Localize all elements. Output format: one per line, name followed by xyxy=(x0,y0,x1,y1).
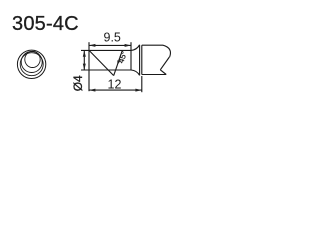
svg-text:9.5: 9.5 xyxy=(104,31,121,45)
dia4 bottom arrow xyxy=(83,64,86,70)
side view: cylinder bottom edge xyxy=(81,69,131,71)
front view heel circle xyxy=(21,52,42,73)
body bottom edge xyxy=(142,74,166,76)
dim 12 right arrow xyxy=(135,89,141,92)
side view: cylinder top edge xyxy=(81,49,131,51)
body top edge xyxy=(142,44,163,46)
side view: junction line at flare xyxy=(130,42,132,70)
side view: extension line left vertical xyxy=(88,42,90,91)
front view bevel face ellipse xyxy=(25,51,40,67)
dim dia4 line xyxy=(83,50,85,70)
dim 9.5 line xyxy=(89,44,131,46)
break line lower xyxy=(160,70,166,75)
dia4 top arrow xyxy=(83,50,86,56)
front view outer circle xyxy=(17,50,45,78)
svg-text:12: 12 xyxy=(108,78,122,92)
flange vertical 2 xyxy=(141,45,143,74)
dim 9.5 left arrow xyxy=(89,44,95,47)
flange vertical 1 xyxy=(139,45,141,76)
break arc xyxy=(163,45,170,57)
45 leader arrowhead xyxy=(117,60,120,65)
flare bottom curve xyxy=(131,70,140,75)
bevel edge 45deg xyxy=(89,51,113,76)
dim 12 left arrow xyxy=(89,89,95,92)
flare top curve xyxy=(131,45,140,51)
dim 9.5 right arrow xyxy=(125,44,131,47)
front view cone base circle xyxy=(20,53,43,76)
title 305-4C xyxy=(12,13,79,36)
svg-text:45°: 45° xyxy=(116,50,129,64)
dim 12 right extension xyxy=(141,76,143,92)
dim 12 line xyxy=(89,89,142,91)
svg-text:Ø4: Ø4 xyxy=(71,75,85,91)
45 leader line xyxy=(114,51,123,76)
break line upper xyxy=(160,57,169,70)
